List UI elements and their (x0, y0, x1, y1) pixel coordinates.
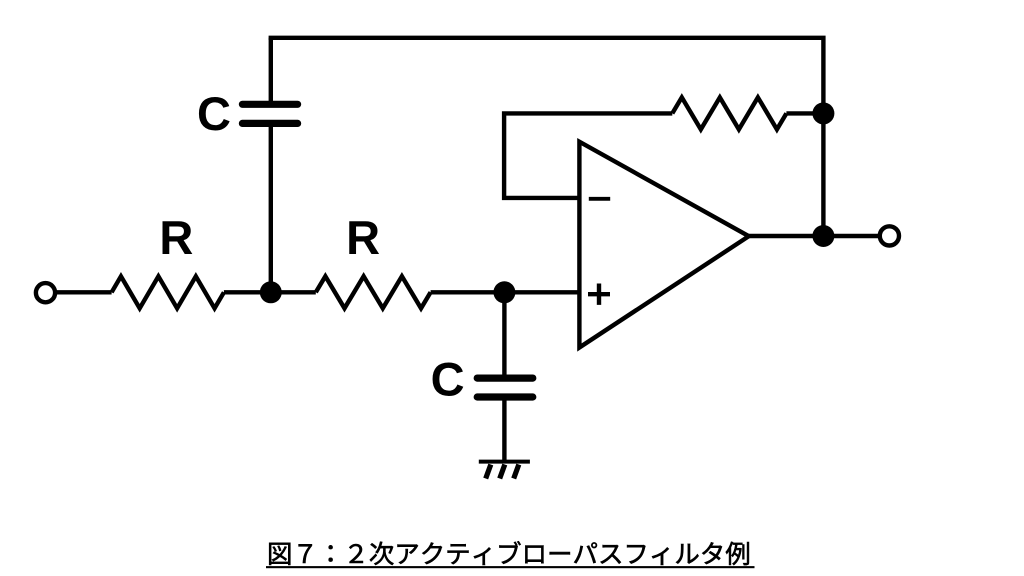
output terminal (open circle) (880, 226, 899, 245)
input terminal (open circle) (36, 283, 55, 302)
capacitor C1 (plates) (242, 104, 297, 123)
svg-text:C: C (197, 87, 231, 140)
wire: input lead from Vin terminal to R1 (55, 290, 112, 294)
ground (479, 462, 530, 479)
resistor R2 (zigzag) (316, 276, 431, 308)
svg-text:C: C (431, 353, 465, 406)
node D junction dot (at + input column) (493, 281, 515, 303)
caption underline (266, 566, 755, 568)
caption text: 図７：２次アクティブローパスフィルタ例 (269, 541, 749, 565)
node A junction dot (260, 281, 282, 303)
capacitor C2 (plates) (477, 378, 533, 397)
svg-text:R: R (346, 211, 380, 264)
op-amp U1 (triangle) (579, 142, 748, 348)
op-amp minus input sign (589, 197, 610, 201)
svg-text:R: R (159, 211, 193, 264)
op-amp plus input sign (588, 284, 610, 305)
wire: R3 to node C (786, 111, 823, 115)
wire: node D down to capacitor C2 (502, 292, 506, 461)
resistor R3 feedback (zigzag) (672, 97, 786, 129)
wire: R2 to op-amp non-inverting input (431, 290, 580, 294)
wire: R1 to R2 through node A (224, 290, 316, 294)
wire: node A up to capacitor C1 (269, 38, 273, 292)
wire: top feedback run from C1 to output column (269, 38, 824, 236)
node C junction dot (feedback) (812, 102, 834, 124)
wire: op-amp output to Vout terminal (749, 234, 880, 238)
resistor R1 (zigzag) (112, 276, 224, 308)
wire: inverting feedback loop from node C to op-amp minus input (504, 113, 672, 197)
node B junction dot (output) (812, 225, 834, 247)
